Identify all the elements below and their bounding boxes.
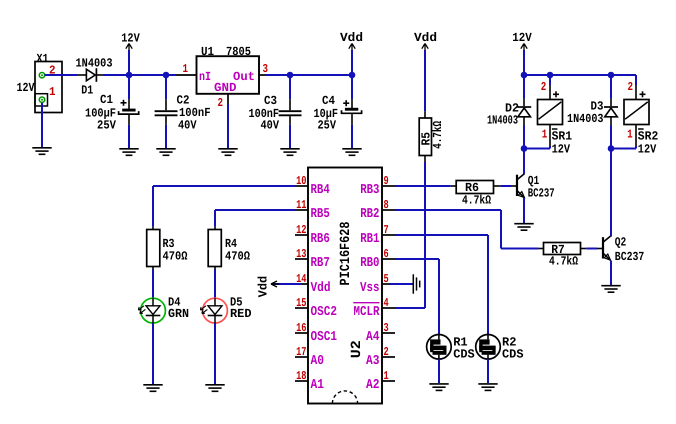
svg-text:12V: 12V <box>638 142 657 156</box>
pin 9 of U2 (RB3) <box>360 174 395 198</box>
svg-text:RB3: RB3 <box>360 183 379 198</box>
wire C4 to ground <box>351 125 353 148</box>
svg-text:C3: C3 <box>264 94 277 108</box>
wire D2 to Q1 collector <box>523 126 525 174</box>
svg-text:OSC1: OSC1 <box>311 330 338 345</box>
ground (under X1) <box>32 148 51 155</box>
svg-text:10: 10 <box>296 174 306 188</box>
wire RB2 to R7 <box>395 210 538 249</box>
svg-text:Vdd: Vdd <box>311 281 331 296</box>
ground (under R2) <box>478 384 497 391</box>
photoresistor R1 CDS <box>427 335 475 362</box>
svg-text:MCLR: MCLR <box>354 305 381 320</box>
svg-text:Vdd: Vdd <box>340 31 363 45</box>
wire C1 to ground <box>128 125 130 148</box>
svg-text:25V: 25V <box>97 119 117 133</box>
junction D3/SR2/Q2 <box>608 145 615 152</box>
svg-text:6: 6 <box>384 247 389 261</box>
svg-text:16: 16 <box>296 321 306 335</box>
pin 1 of SR2 <box>627 125 636 147</box>
relay SR1 <box>538 100 563 125</box>
svg-text:5: 5 <box>384 272 389 286</box>
wire U1 out rail <box>265 74 352 76</box>
pin 3 of U2 (A4) <box>366 321 395 345</box>
svg-text:nI: nI <box>199 70 211 84</box>
node Vdd arrow (pin 14) <box>256 276 301 298</box>
wire U1 pin2 to ground <box>227 104 229 148</box>
wire Q2 emitter to ground <box>610 261 612 285</box>
wire SR1 pin1 to D2 node <box>524 146 550 149</box>
resistor R5 <box>419 111 445 162</box>
transistor Q1 <box>517 174 555 201</box>
svg-text:18: 18 <box>296 369 306 383</box>
pin 7 of U2 (RB1) <box>360 223 395 247</box>
svg-text:25V: 25V <box>318 118 337 132</box>
junction D3 tap <box>608 72 615 79</box>
ground (under D4) <box>143 385 162 392</box>
wire C3 to ground <box>289 125 291 148</box>
svg-text:2: 2 <box>218 96 224 110</box>
pin 10 of U2 (RB4) <box>295 174 330 198</box>
svg-text:Vdd: Vdd <box>256 276 270 298</box>
pin 1 of SR1 <box>542 125 550 147</box>
pin 12 of U2 (RB6) <box>295 223 330 247</box>
pin 4 of U2 (MCLR) <box>353 296 395 320</box>
label SR1 12V <box>552 142 571 156</box>
svg-text:4.7kΩ: 4.7kΩ <box>462 194 491 208</box>
svg-text:17: 17 <box>296 345 306 359</box>
LED D5 (red) <box>200 295 251 323</box>
svg-text:OSC2: OSC2 <box>311 305 338 320</box>
pin 6 of U2 (RB0) <box>360 247 395 271</box>
svg-text:11: 11 <box>296 198 306 212</box>
svg-text:12V: 12V <box>552 142 571 156</box>
wire C2 to ground <box>165 125 167 148</box>
pin 2 of U2 (A3) <box>366 345 395 369</box>
capacitor C2 <box>155 75 211 132</box>
capacitor C1 <box>85 75 139 133</box>
regulator U1 7805 <box>197 45 260 94</box>
pin 13 of U2 (RB7) <box>295 247 330 271</box>
svg-text:470Ω: 470Ω <box>225 250 251 264</box>
svg-text:RB4: RB4 <box>311 183 330 198</box>
wire rail to SR1 pin2 <box>549 75 551 85</box>
ground (under D5) <box>205 385 224 392</box>
svg-text:15: 15 <box>296 296 306 310</box>
ground (Vss pin 5) <box>389 274 420 293</box>
svg-text:12: 12 <box>296 223 306 237</box>
pin 5 of U2 (Vss) <box>360 272 395 296</box>
relay SR2 <box>624 100 649 125</box>
pin 15 of U2 (OSC2) <box>295 296 337 320</box>
pin 11 of U2 (RB5) <box>295 198 330 222</box>
svg-text:A3: A3 <box>366 354 380 369</box>
ground (under C2) <box>156 149 175 156</box>
diode D1 <box>76 57 113 98</box>
svg-text:4.7kΩ: 4.7kΩ <box>431 120 445 148</box>
svg-text:X1: X1 <box>37 52 49 66</box>
pin 18 of U2 (A1) <box>295 369 324 393</box>
svg-text:CDS: CDS <box>453 348 475 362</box>
resistor R3 <box>147 227 188 270</box>
svg-text:2: 2 <box>628 80 634 94</box>
transistor Q2 <box>603 236 644 264</box>
pin 3 of U1 <box>259 62 268 76</box>
svg-text:12V: 12V <box>17 81 35 95</box>
wire RB5 to R4 <box>215 210 295 227</box>
pin name In <box>199 70 211 84</box>
pin 14 of U2 (Vdd) <box>295 272 331 296</box>
pin 1 of U1 <box>176 62 197 76</box>
node Vdd power arrow (R5) <box>414 31 437 111</box>
svg-text:1N4003: 1N4003 <box>567 112 604 126</box>
svg-text:Vdd: Vdd <box>414 31 437 45</box>
svg-text:GND: GND <box>214 81 237 95</box>
wire R6 to Q1 base <box>501 185 517 187</box>
diode D3 <box>567 75 618 126</box>
svg-text:A1: A1 <box>311 378 325 393</box>
svg-text:RB0: RB0 <box>360 256 379 271</box>
svg-text:RB2: RB2 <box>360 207 379 222</box>
pin name Out <box>233 70 255 84</box>
svg-text:7: 7 <box>384 223 389 237</box>
wire X1 pin1 to ground <box>41 103 43 147</box>
svg-text:40V: 40V <box>178 118 197 132</box>
resistor R6 <box>451 181 501 208</box>
resistor R7 <box>538 243 586 269</box>
wire 12V rail <box>524 74 636 76</box>
wire rail corner to SR2 pin2 <box>635 75 637 85</box>
svg-text:470Ω: 470Ω <box>163 250 189 264</box>
wire D3 to Q2 collector <box>610 126 612 237</box>
svg-text:PIC16F628: PIC16F628 <box>338 222 354 286</box>
wire R1 to ground <box>438 359 440 383</box>
svg-text:RB1: RB1 <box>360 232 379 247</box>
junction C3 tap <box>287 72 294 79</box>
svg-text:A4: A4 <box>366 330 380 345</box>
diode D2 <box>487 75 531 128</box>
wire Q1 emitter to ground <box>523 198 525 223</box>
svg-text:Vss: Vss <box>360 281 380 296</box>
svg-text:2: 2 <box>541 80 547 94</box>
svg-text:4: 4 <box>384 296 389 310</box>
pin 2 of X1 <box>39 64 55 78</box>
capacitor C4 <box>314 75 362 132</box>
svg-text:A2: A2 <box>366 378 380 393</box>
svg-text:3: 3 <box>384 321 389 335</box>
svg-text:A0: A0 <box>311 354 325 369</box>
svg-text:D1: D1 <box>81 84 93 98</box>
label 12V (X1 net) <box>17 81 35 95</box>
svg-text:CDS: CDS <box>502 348 524 362</box>
svg-text:1N4003: 1N4003 <box>487 114 518 128</box>
pin 17 of U2 (A0) <box>295 345 324 369</box>
junction Vdd / C4 tap <box>349 72 356 79</box>
pin 2 of SR1 <box>541 80 559 100</box>
svg-text:1: 1 <box>384 369 389 383</box>
svg-text:4.7kΩ: 4.7kΩ <box>549 255 578 269</box>
pin 2 of U1 <box>218 94 229 110</box>
wire RB1 to R2cds <box>395 235 488 335</box>
pin 16 of U2 (OSC1) <box>295 321 337 345</box>
ground (under R1) <box>429 384 448 391</box>
svg-text:Q2: Q2 <box>615 236 627 250</box>
svg-text:3: 3 <box>263 62 269 76</box>
wire D4 to ground <box>152 323 154 384</box>
svg-text:9: 9 <box>384 174 389 188</box>
svg-text:RED: RED <box>230 307 252 321</box>
photoresistor R2 CDS <box>476 335 524 362</box>
ground (under C1) <box>119 149 138 156</box>
pin 1 of X1 <box>35 85 56 106</box>
wire RB0 to R1cds <box>395 259 439 335</box>
svg-text:U1: U1 <box>201 45 214 59</box>
svg-text:40V: 40V <box>261 118 280 132</box>
label SR2 12V <box>638 142 657 156</box>
junction C2 tap <box>163 72 170 79</box>
wire X1 pin2 to D1 <box>45 74 78 76</box>
ground (under U1) <box>218 149 237 156</box>
wire R2 to ground <box>487 359 489 383</box>
ground (Q1 emitter) <box>514 224 533 231</box>
node 12V power arrow (top left) <box>121 32 140 76</box>
svg-text:BC237: BC237 <box>615 250 645 264</box>
junction SR1 pin2 tap <box>547 72 554 79</box>
svg-text:1: 1 <box>627 127 633 141</box>
svg-text:C1: C1 <box>100 93 113 107</box>
svg-text:C4: C4 <box>322 94 335 108</box>
wire RB4 to R3 <box>153 186 295 227</box>
IC U2 PIC16F628 <box>308 168 382 404</box>
svg-text:2: 2 <box>384 345 389 359</box>
label SR2 <box>638 129 659 144</box>
svg-text:8: 8 <box>384 198 389 212</box>
svg-text:1: 1 <box>542 127 548 141</box>
svg-text:U2: U2 <box>349 340 365 358</box>
wire R7 to Q2 base <box>586 248 603 250</box>
wire R3 to D4 <box>152 270 154 299</box>
svg-text:RB6: RB6 <box>311 232 330 247</box>
svg-text:RB7: RB7 <box>311 256 330 271</box>
wire RB3 to R6 <box>395 185 451 187</box>
svg-text:7805: 7805 <box>226 45 251 59</box>
label SR1 <box>552 129 573 144</box>
svg-text:1N4003: 1N4003 <box>76 57 113 71</box>
pin 1 of U2 (A2) <box>366 369 395 393</box>
svg-text:1: 1 <box>183 62 189 76</box>
pin 8 of U2 (RB2) <box>360 198 395 222</box>
pin name GND <box>214 81 237 95</box>
pin 2 of SR2 <box>628 80 646 100</box>
junction D2/SR1/Q1 <box>521 145 528 152</box>
svg-text:12V: 12V <box>512 31 532 45</box>
junction 12V/D2 <box>521 72 528 79</box>
node 12V power arrow (right) <box>512 31 532 75</box>
ground (under C3) <box>280 149 299 156</box>
svg-text:GRN: GRN <box>168 307 189 321</box>
wire R5 to MCLR <box>395 162 425 308</box>
svg-text:RB5: RB5 <box>311 207 330 222</box>
ground (Q2 emitter) <box>601 286 620 293</box>
wire R4 to D5 <box>214 270 216 299</box>
connector X1 <box>35 52 62 113</box>
node Vdd power arrow (over C4) <box>340 31 363 75</box>
wire D5 to ground <box>214 323 216 384</box>
svg-text:1: 1 <box>49 85 56 99</box>
capacitor C3 <box>249 75 302 132</box>
LED D4 (green) <box>138 295 189 323</box>
wire D1 to U1 pin1 <box>104 74 177 76</box>
resistor R4 <box>208 227 250 270</box>
svg-text:BC237: BC237 <box>528 187 555 201</box>
svg-text:12V: 12V <box>121 32 140 46</box>
wire SR2 pin1 to D3 node <box>611 146 636 149</box>
ground (under C4) <box>342 149 361 156</box>
svg-text:13: 13 <box>296 247 306 261</box>
node junction at 12V rail / C1 <box>126 72 133 79</box>
